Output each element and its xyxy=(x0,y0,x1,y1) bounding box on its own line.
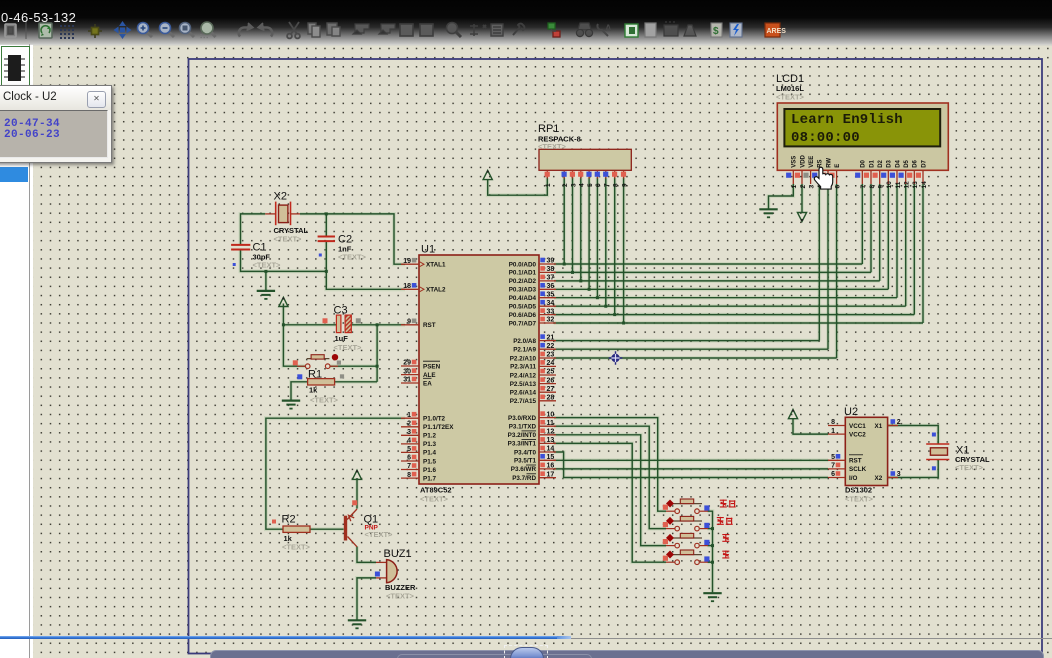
svg-text:2: 2 xyxy=(407,421,411,428)
svg-text:C3: C3 xyxy=(334,305,348,317)
svg-text:VSS: VSS xyxy=(792,156,798,168)
svg-text:1k: 1k xyxy=(309,386,318,395)
icon: bom xyxy=(711,23,722,37)
video play button xyxy=(510,647,544,658)
svg-text:P2.3/A11: P2.3/A11 xyxy=(510,364,536,371)
U1 INT0 INT1 WR RD overlines xyxy=(522,431,537,474)
svg-text:13: 13 xyxy=(547,437,555,444)
svg-text:D1: D1 xyxy=(869,159,875,167)
svg-text:22: 22 xyxy=(547,343,555,350)
icon: electrical check xyxy=(730,23,742,37)
svg-text:RST: RST xyxy=(423,322,436,329)
U1 right pin numbers and state markers xyxy=(547,258,555,479)
LCD1 pin state markers xyxy=(786,173,921,178)
svg-text:P2.5/A13: P2.5/A13 xyxy=(510,381,537,388)
svg-text:$: $ xyxy=(713,26,719,37)
icon: ARES xyxy=(765,23,786,37)
svg-text:2: 2 xyxy=(897,419,901,426)
svg-text:2: 2 xyxy=(800,185,807,189)
svg-text:P1.7: P1.7 xyxy=(423,475,436,482)
svg-text:VCC1: VCC1 xyxy=(849,423,866,430)
ground below buttons xyxy=(703,593,721,601)
resistor pack RP1 RESPACK-8 xyxy=(539,149,631,170)
power terminal RP1 xyxy=(483,170,492,179)
svg-text:39: 39 xyxy=(547,258,555,265)
svg-text:36: 36 xyxy=(547,283,555,290)
svg-text:P1.6: P1.6 xyxy=(423,467,436,474)
svg-text:Learn En9lish: Learn En9lish xyxy=(791,112,903,128)
transistor Q1 PNP xyxy=(344,516,347,541)
svg-text:18: 18 xyxy=(403,283,411,290)
svg-text:P3.3/INT1: P3.3/INT1 xyxy=(508,441,537,448)
svg-text:7: 7 xyxy=(604,183,611,187)
svg-text:P0.6/AD6: P0.6/AD6 xyxy=(509,312,537,319)
svg-text:P0.4/AD4: P0.4/AD4 xyxy=(509,295,537,302)
icon: zoom all xyxy=(201,22,216,38)
ground below R1 xyxy=(282,401,300,409)
push button reset xyxy=(297,365,338,367)
svg-text:P1.4: P1.4 xyxy=(423,450,436,457)
svg-text:P0.5/AD5: P0.5/AD5 xyxy=(509,304,537,311)
svg-text:<TEXT>: <TEXT> xyxy=(365,530,394,539)
svg-text:1: 1 xyxy=(407,412,411,419)
U1 left pin stubs xyxy=(401,264,419,478)
push button 2 (SELECT) xyxy=(666,528,708,530)
svg-text:P1.1/T2EX: P1.1/T2EX xyxy=(423,424,454,431)
icon: marker xyxy=(684,25,696,36)
wire junctions xyxy=(264,212,714,563)
U1 left pin names xyxy=(423,262,454,483)
svg-text:6: 6 xyxy=(595,183,602,187)
U2 left pin stubs xyxy=(828,426,845,478)
svg-text:9: 9 xyxy=(621,183,628,187)
ground below BUZ1 xyxy=(348,620,366,628)
svg-text:P0.2/AD2: P0.2/AD2 xyxy=(509,278,537,285)
push button 1 (SET) xyxy=(666,510,708,512)
svg-text:1: 1 xyxy=(791,185,798,189)
svg-text:VCC2: VCC2 xyxy=(849,431,866,438)
svg-text:D2: D2 xyxy=(878,159,884,167)
icon: zoom out xyxy=(160,23,175,38)
svg-text:X2: X2 xyxy=(274,191,287,203)
icon: grid xyxy=(60,25,74,39)
svg-text:30: 30 xyxy=(403,368,411,375)
svg-text:3: 3 xyxy=(897,471,901,478)
icon: design explorer xyxy=(513,24,524,35)
U1 right pin names xyxy=(508,261,537,482)
svg-text:37: 37 xyxy=(547,275,555,282)
icon: package xyxy=(664,21,678,36)
svg-text:I/O: I/O xyxy=(849,475,857,482)
svg-text:P3.4/T0: P3.4/T0 xyxy=(514,449,537,456)
icon: component green xyxy=(625,24,638,37)
svg-text:P2.1/A9: P2.1/A9 xyxy=(513,347,536,354)
svg-text:6: 6 xyxy=(831,471,835,478)
svg-text:26: 26 xyxy=(547,377,555,384)
svg-text:10: 10 xyxy=(547,411,555,418)
power terminal Q1 emitter xyxy=(352,470,361,479)
svg-text:32: 32 xyxy=(547,317,555,324)
LCD1 pin numbers xyxy=(791,181,928,189)
icon: block move xyxy=(379,24,395,34)
svg-text:33: 33 xyxy=(547,308,555,315)
U2 right pin numbers and markers xyxy=(897,419,901,478)
svg-text:SCLK: SCLK xyxy=(849,466,867,473)
svg-text:ALE: ALE xyxy=(423,372,436,379)
icon: refresh xyxy=(39,23,52,38)
svg-text:P3.2/INT0: P3.2/INT0 xyxy=(508,432,537,439)
svg-text:2: 2 xyxy=(562,183,569,187)
LCD1 pin names xyxy=(792,154,928,167)
icon: block rotate xyxy=(400,24,413,36)
svg-text:17: 17 xyxy=(547,471,555,478)
U1 PSEN EA overlines xyxy=(423,361,440,378)
push button 4 (MINUS) xyxy=(666,561,708,563)
U2 left pin numbers and markers xyxy=(831,419,835,478)
svg-text:<TEXT>: <TEXT> xyxy=(845,495,874,504)
svg-text:A: A xyxy=(605,23,612,33)
svg-text:P2.6/A14: P2.6/A14 xyxy=(510,390,537,397)
resistor R1 1k xyxy=(308,379,335,385)
icon: redo xyxy=(258,23,272,37)
svg-text:25: 25 xyxy=(547,369,555,376)
svg-text:<TEXT>: <TEXT> xyxy=(338,253,367,262)
power terminal U2 VCC2 xyxy=(788,410,797,419)
svg-text:9: 9 xyxy=(407,319,411,326)
svg-text:<TEXT>: <TEXT> xyxy=(274,235,303,244)
capacitor C2 1nF xyxy=(318,237,335,242)
svg-text:ARES: ARES xyxy=(767,28,787,35)
svg-text:<TEXT>: <TEXT> xyxy=(538,142,567,151)
svg-text:5: 5 xyxy=(831,454,835,461)
svg-text:13: 13 xyxy=(912,181,919,189)
RP1 pin stubs xyxy=(547,170,623,178)
icon: property tool xyxy=(491,24,503,36)
svg-text:08:00:00: 08:00:00 xyxy=(791,130,860,146)
U2 pin names xyxy=(849,423,883,482)
svg-text:15: 15 xyxy=(547,454,555,461)
svg-text:D0: D0 xyxy=(861,159,867,167)
svg-text:PSEN: PSEN xyxy=(423,363,441,370)
LCD LCD1 LM016L body xyxy=(777,103,948,170)
icon: copy xyxy=(308,23,320,37)
terminal LCD VDD down arrow xyxy=(797,213,806,222)
icon: find part xyxy=(447,23,462,38)
svg-text:5: 5 xyxy=(407,446,411,453)
svg-text:D6: D6 xyxy=(913,159,919,167)
popup window Clock - U2 xyxy=(0,85,112,163)
svg-text:P0.7/AD7: P0.7/AD7 xyxy=(509,320,537,327)
svg-text:29: 29 xyxy=(403,360,411,367)
icon: block delete xyxy=(420,24,433,36)
svg-text:VEE: VEE xyxy=(809,156,815,168)
svg-text:21: 21 xyxy=(547,334,555,341)
crystal X1 xyxy=(926,444,949,460)
icon: new document xyxy=(5,24,16,37)
icon: pan arrows xyxy=(114,21,132,39)
svg-text:4: 4 xyxy=(407,438,411,445)
svg-text:D7: D7 xyxy=(921,159,927,167)
svg-text:RP1: RP1 xyxy=(538,123,559,135)
video progress bar xyxy=(0,638,1052,640)
buzzer BUZ1 xyxy=(376,562,387,578)
IC U2 DS1302 body xyxy=(845,417,887,485)
RP1 pin state markers xyxy=(545,172,627,177)
svg-text:8: 8 xyxy=(831,419,835,426)
icon: paste xyxy=(327,23,340,36)
svg-text:DS1302: DS1302 xyxy=(845,486,872,495)
svg-text:P1.3: P1.3 xyxy=(423,441,436,448)
svg-text:P3.7/RD: P3.7/RD xyxy=(512,475,536,482)
push button 3 (PLUS) xyxy=(666,545,708,547)
svg-text:1uF: 1uF xyxy=(335,334,349,343)
svg-text:11: 11 xyxy=(895,181,902,188)
icon: sheet white xyxy=(645,23,656,37)
svg-text:P3.5/T1: P3.5/T1 xyxy=(514,458,537,465)
icon: undo xyxy=(239,23,253,37)
LCD1 screen xyxy=(784,109,940,146)
icon: cut xyxy=(287,22,300,38)
wire halo layer xyxy=(241,178,939,620)
svg-text:1: 1 xyxy=(831,428,835,435)
svg-text:RST: RST xyxy=(849,458,862,465)
svg-text:8: 8 xyxy=(869,185,876,189)
svg-text:35: 35 xyxy=(547,291,555,298)
svg-text:P0.1/AD1: P0.1/AD1 xyxy=(509,270,537,277)
svg-text:5: 5 xyxy=(587,183,594,187)
icon: zoom in xyxy=(138,23,153,38)
svg-text:P2.2/A10: P2.2/A10 xyxy=(510,355,537,362)
svg-text:24: 24 xyxy=(547,360,555,367)
icon: block copy xyxy=(353,24,369,34)
svg-text:AT89C52: AT89C52 xyxy=(420,486,452,495)
svg-text:D4: D4 xyxy=(895,159,901,167)
svg-text:U2: U2 xyxy=(844,406,858,418)
svg-text:P0.3/AD3: P0.3/AD3 xyxy=(509,287,537,294)
svg-text:38: 38 xyxy=(547,266,555,273)
svg-text:P2.0/A8: P2.0/A8 xyxy=(513,338,536,345)
node marker on P2.2 net xyxy=(609,351,623,365)
icon: origin xyxy=(88,24,102,38)
svg-text:23: 23 xyxy=(547,352,555,359)
U1 clock input triangles xyxy=(419,261,424,292)
svg-text:6: 6 xyxy=(834,185,841,189)
svg-text:9: 9 xyxy=(878,185,885,189)
svg-text:XTAL1: XTAL1 xyxy=(426,262,446,269)
svg-text:12: 12 xyxy=(904,181,911,189)
svg-text:14: 14 xyxy=(921,181,928,189)
svg-text:D5: D5 xyxy=(904,159,910,167)
svg-text:P2.4/A12: P2.4/A12 xyxy=(510,372,537,379)
svg-text:<TEXT>: <TEXT> xyxy=(310,396,339,405)
svg-text:R2: R2 xyxy=(282,514,296,526)
svg-text:XTAL2: XTAL2 xyxy=(426,287,446,294)
power terminal reset xyxy=(279,297,288,306)
svg-text:<TEXT>: <TEXT> xyxy=(282,543,311,552)
svg-text:16: 16 xyxy=(547,463,555,470)
wire layer xyxy=(241,178,939,620)
sheet border xyxy=(189,59,1043,654)
svg-text:U1: U1 xyxy=(421,244,435,256)
svg-text:3: 3 xyxy=(808,185,815,189)
svg-text:27: 27 xyxy=(547,386,555,393)
left panel xyxy=(0,44,33,658)
svg-text:4: 4 xyxy=(579,183,586,187)
ground below LCD VSS xyxy=(759,209,777,217)
svg-text:BUZ1: BUZ1 xyxy=(384,548,412,560)
svg-text:VDD: VDD xyxy=(800,154,806,167)
svg-text:P3.0/RXD: P3.0/RXD xyxy=(508,415,536,422)
capacitor C3 1uF xyxy=(336,315,341,333)
svg-text:R1: R1 xyxy=(308,369,322,381)
icon: new sheet xyxy=(548,23,560,37)
svg-text:7: 7 xyxy=(407,463,411,470)
svg-text:7: 7 xyxy=(860,185,867,189)
svg-text:P3.6/WR: P3.6/WR xyxy=(511,466,537,473)
ground below C1 xyxy=(257,291,275,299)
svg-text:<TEXT>: <TEXT> xyxy=(386,592,415,601)
svg-text:<TEXT>: <TEXT> xyxy=(334,343,363,352)
svg-text:28: 28 xyxy=(547,395,555,402)
U2 right pin stubs xyxy=(888,426,898,478)
svg-text:19: 19 xyxy=(403,258,411,265)
svg-text:P1.5: P1.5 xyxy=(423,458,436,465)
svg-text:14: 14 xyxy=(547,446,555,453)
svg-text:<TEXT>: <TEXT> xyxy=(776,93,805,102)
svg-text:<TEXT>: <TEXT> xyxy=(420,495,449,504)
svg-text:12: 12 xyxy=(547,429,555,436)
svg-text:P3.1/TXD: P3.1/TXD xyxy=(509,424,537,431)
svg-text:X1: X1 xyxy=(875,423,883,430)
U1 left pin numbers and state markers xyxy=(403,258,411,479)
svg-text:D3: D3 xyxy=(887,159,893,167)
svg-text:8: 8 xyxy=(407,472,411,479)
icon: wire autorouter xyxy=(470,24,486,36)
svg-text:<TEXT>: <TEXT> xyxy=(253,261,282,270)
capacitor C1 30pF xyxy=(231,245,250,250)
crystal X2 xyxy=(276,202,291,226)
svg-text:3: 3 xyxy=(570,183,577,187)
svg-text:X2: X2 xyxy=(875,475,883,482)
svg-text:E: E xyxy=(835,164,841,168)
LCD1 pin stubs xyxy=(793,170,923,184)
svg-text:3: 3 xyxy=(407,429,411,436)
svg-text:<TEXT>: <TEXT> xyxy=(955,463,984,472)
icon: wrench A xyxy=(597,23,612,36)
svg-text:P1.0/T2: P1.0/T2 xyxy=(423,416,446,423)
svg-text:RW: RW xyxy=(826,158,832,168)
RP1 pin numbers xyxy=(545,183,628,187)
svg-text:8: 8 xyxy=(613,183,620,187)
svg-text:6: 6 xyxy=(407,455,411,462)
icon: binoculars xyxy=(576,23,592,37)
svg-text:7: 7 xyxy=(831,463,835,470)
resistor R2 1k xyxy=(283,526,310,532)
svg-text:31: 31 xyxy=(403,377,411,384)
U1 right pin stubs xyxy=(539,264,556,478)
svg-text:10: 10 xyxy=(886,181,893,189)
svg-text:RS: RS xyxy=(818,159,824,167)
svg-text:1: 1 xyxy=(545,183,552,187)
svg-text:11: 11 xyxy=(547,420,555,427)
svg-text:P2.7/A15: P2.7/A15 xyxy=(510,398,537,405)
svg-text:EA: EA xyxy=(423,380,432,387)
toolbar xyxy=(0,0,1052,44)
IC U1 AT89C52 body xyxy=(419,255,539,484)
svg-text:P1.2: P1.2 xyxy=(423,433,436,440)
svg-text:P0.0/AD0: P0.0/AD0 xyxy=(509,261,537,268)
video control bar overlay xyxy=(210,650,1044,658)
mouse cursor (hand) xyxy=(814,167,832,189)
icon: zoom area xyxy=(180,23,195,38)
svg-text:34: 34 xyxy=(547,300,555,307)
